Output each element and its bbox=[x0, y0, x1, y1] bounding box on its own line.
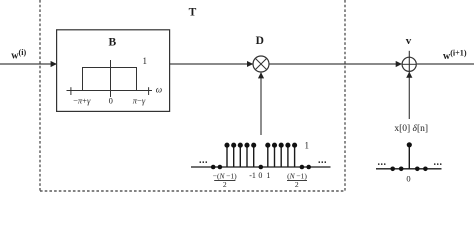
svg-text:v: v bbox=[406, 35, 412, 47]
svg-text:0: 0 bbox=[109, 96, 113, 106]
svg-text:1: 1 bbox=[143, 56, 148, 66]
svg-text:1: 1 bbox=[266, 171, 270, 180]
svg-text:−π+γ: −π+γ bbox=[73, 96, 91, 106]
svg-text:B: B bbox=[108, 37, 116, 49]
svg-text:...: ... bbox=[378, 157, 387, 168]
svg-text:0: 0 bbox=[406, 174, 410, 184]
svg-text:D: D bbox=[256, 35, 264, 47]
svg-text:0: 0 bbox=[258, 171, 262, 180]
svg-text:2: 2 bbox=[295, 180, 299, 189]
svg-text:x[0] δ[n]: x[0] δ[n] bbox=[394, 124, 428, 134]
svg-text:T: T bbox=[189, 7, 197, 19]
svg-text:π−γ: π−γ bbox=[133, 96, 146, 106]
svg-text:2: 2 bbox=[223, 180, 227, 189]
svg-text:...: ... bbox=[434, 157, 443, 168]
svg-text:ω: ω bbox=[156, 84, 162, 94]
svg-text:-1: -1 bbox=[249, 171, 256, 180]
svg-text:1: 1 bbox=[305, 141, 310, 151]
svg-text:...: ... bbox=[318, 155, 327, 166]
svg-text:...: ... bbox=[199, 155, 208, 166]
